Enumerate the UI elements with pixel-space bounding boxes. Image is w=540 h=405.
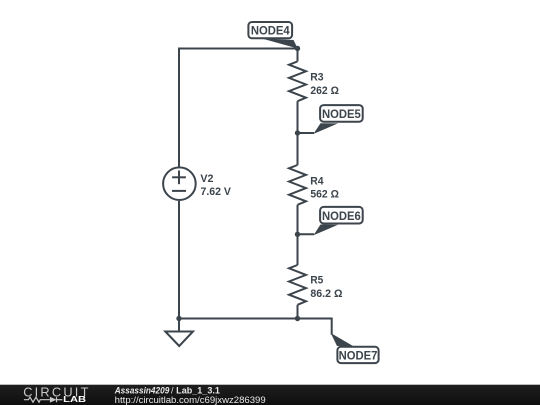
node NODE7 label box: [337, 347, 378, 363]
junction dot ground: [176, 316, 181, 321]
voltage source V2 circle: [163, 167, 196, 200]
logo diode triangle: [50, 397, 57, 403]
svg-text:V2: V2: [200, 173, 213, 185]
svg-text:262 Ω: 262 Ω: [310, 85, 339, 97]
resistor R5 body: [289, 265, 306, 305]
svg-text:R3: R3: [310, 72, 323, 84]
wire NODE4 dot to R3 top: [297, 49, 299, 62]
svg-text:86.2 Ω: 86.2 Ω: [310, 288, 342, 300]
node NODE5 pointer: [314, 123, 339, 134]
footer bar: [0, 385, 540, 405]
junction dot bottom rail: [295, 316, 300, 321]
svg-text:562 Ω: 562 Ω: [310, 189, 339, 201]
svg-text:7.62 V: 7.62 V: [201, 186, 232, 198]
node NODE4 pointer: [261, 38, 298, 48]
wire bottom horizontal: [179, 318, 332, 320]
node NODE7 pointer: [331, 333, 353, 346]
svg-text:NODE6: NODE6: [322, 209, 361, 223]
wire V2 bottom to ground junction: [178, 201, 180, 319]
wire top horizontal: [179, 48, 298, 50]
wire left vertical to V2 top: [178, 48, 180, 167]
wire R4 bottom to NODE6 dot: [297, 205, 299, 235]
V2 minus sign: [172, 190, 186, 192]
ground triangle: [165, 332, 193, 347]
svg-text:NODE5: NODE5: [322, 107, 361, 121]
resistor R3 body: [289, 61, 306, 101]
node NODE5 label box: [320, 105, 363, 122]
V2 plus sign: [172, 176, 186, 178]
wire NODE6 dot to R5 top: [297, 234, 299, 265]
junction dot NODE5: [295, 130, 300, 135]
svg-text:http://circuitlab.com/c69jxwz2: http://circuitlab.com/c69jxwz286399: [115, 395, 266, 405]
wire NODE5 stub: [298, 132, 315, 134]
wire NODE5 dot to R4 top: [297, 133, 299, 165]
svg-text:LAB: LAB: [63, 395, 86, 404]
svg-text:R4: R4: [310, 175, 324, 187]
wire R3 bottom to NODE5 dot: [297, 101, 299, 133]
junction dot NODE4: [295, 46, 300, 51]
node NODE6 label box: [320, 207, 363, 224]
logo resistor-diode symbol: [24, 397, 63, 402]
resistor R4 body: [289, 165, 306, 205]
wire R5 bottom to bottom rail: [297, 305, 299, 319]
node NODE4 label box: [248, 22, 292, 38]
wire NODE7 corner vertical: [331, 318, 333, 335]
ground stub: [178, 319, 180, 332]
node NODE6 pointer: [314, 225, 339, 236]
svg-text:R5: R5: [310, 274, 323, 286]
svg-text:NODE4: NODE4: [251, 24, 290, 38]
junction dot NODE6: [295, 232, 300, 237]
wire NODE6 stub: [298, 233, 315, 235]
svg-text:NODE7: NODE7: [339, 348, 378, 362]
